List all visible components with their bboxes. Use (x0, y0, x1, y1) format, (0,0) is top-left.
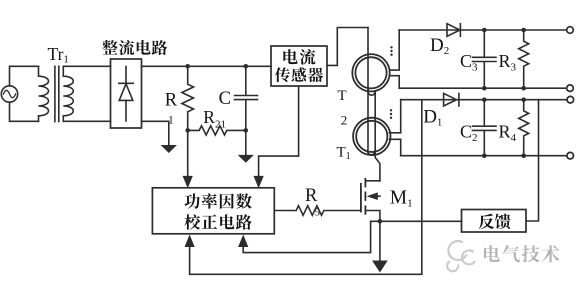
transformer T toroid (352, 54, 389, 91)
label 电流 传感器 (275, 49, 323, 82)
ground (C) (239, 155, 253, 162)
wire secondary to rectifier bottom (63, 120, 110, 122)
wire sensor to PFC (259, 86, 299, 177)
T1 winding stub upper to D1 rail (389, 100, 400, 133)
MOSFET M1 (361, 179, 380, 221)
arrow into PFC bottom from sense wire (185, 236, 194, 247)
svg-text:R: R (305, 186, 318, 206)
capacitor C3 (473, 30, 497, 88)
transformer Tr1 primary winding (39, 66, 49, 121)
resistor R4 (519, 100, 529, 156)
polarity dots T (390, 46, 392, 56)
wire source bottom (10, 102, 39, 121)
rail output 2 top (401, 99, 567, 101)
T winding stub upper to D2 rail (390, 30, 400, 70)
watermark 电气技术 (484, 245, 560, 262)
rail output 1 bottom (399, 87, 567, 89)
svg-text:5: 5 (315, 207, 321, 219)
terminal output2 plus (567, 96, 574, 103)
diode D1 (444, 93, 459, 106)
watermark logo (447, 241, 475, 271)
resistor R (182, 66, 194, 130)
terminal output2 minus (567, 152, 574, 159)
primary wire through toroids (368, 28, 375, 155)
wire source to feedback (371, 220, 462, 222)
rail output 1 top (399, 29, 567, 31)
svg-text:T: T (338, 88, 347, 104)
feedback box (462, 210, 527, 233)
rectifier box (111, 59, 142, 128)
wire R to PFC arrow (187, 130, 189, 176)
capacitor C (235, 66, 258, 155)
terminal output1 minus (567, 85, 574, 92)
AC source (1, 86, 17, 102)
arrow into PFC top from R (183, 176, 192, 187)
transformer Tr1 secondary winding (63, 66, 73, 121)
label 整流电路 (102, 40, 167, 55)
transformer T1 toroid (353, 118, 390, 155)
ground (rectifier) (162, 146, 176, 153)
wire secondary to rectifier top (63, 65, 110, 67)
svg-text:R: R (165, 90, 178, 110)
current sensor box (271, 46, 327, 86)
resistor R21 (188, 126, 245, 135)
node dot R21 right (244, 128, 249, 133)
PFC box (152, 188, 274, 234)
source junction dot (378, 219, 383, 224)
gate wire with resistor R5 (274, 206, 361, 216)
diode D2 (447, 24, 460, 37)
node dot top rail C (244, 64, 249, 69)
sense wire rail2 to PFC (190, 100, 422, 275)
wire top rail (142, 65, 272, 67)
node dots output2 (482, 97, 526, 158)
resistor R3 (519, 30, 529, 88)
wire source top (10, 66, 39, 86)
label 功率因数 校正电路 (184, 193, 251, 229)
svg-text:2: 2 (341, 112, 348, 127)
label 反馈 (479, 214, 511, 229)
capacitor C2 (473, 100, 497, 156)
T winding stub lower to output return (390, 76, 400, 89)
wire rectifier to ground (142, 121, 169, 145)
feedback tap wire (526, 100, 539, 221)
node dot top rail R (185, 64, 190, 69)
node dot R21 left (185, 128, 190, 133)
wire source to PFC bottom (243, 221, 370, 252)
terminal output1 plus (567, 27, 574, 34)
arrow into PFC bottom from source (239, 236, 248, 247)
ground arrow under MOSFET (373, 221, 387, 271)
transformer Tr1 core (55, 66, 59, 121)
wire sensor to transformer primary (327, 28, 368, 66)
svg-text:C: C (219, 89, 231, 109)
svg-text:1: 1 (168, 114, 174, 126)
diode inside rectifier (119, 67, 133, 122)
primary wire exit to MOSFET (368, 90, 380, 181)
polarity dots T1 (390, 109, 392, 119)
T1 winding stub lower to output return (390, 139, 401, 155)
arrow into PFC top from sensor (254, 176, 263, 187)
node dots output1 (482, 28, 526, 91)
rail output 2 bottom (401, 155, 567, 157)
